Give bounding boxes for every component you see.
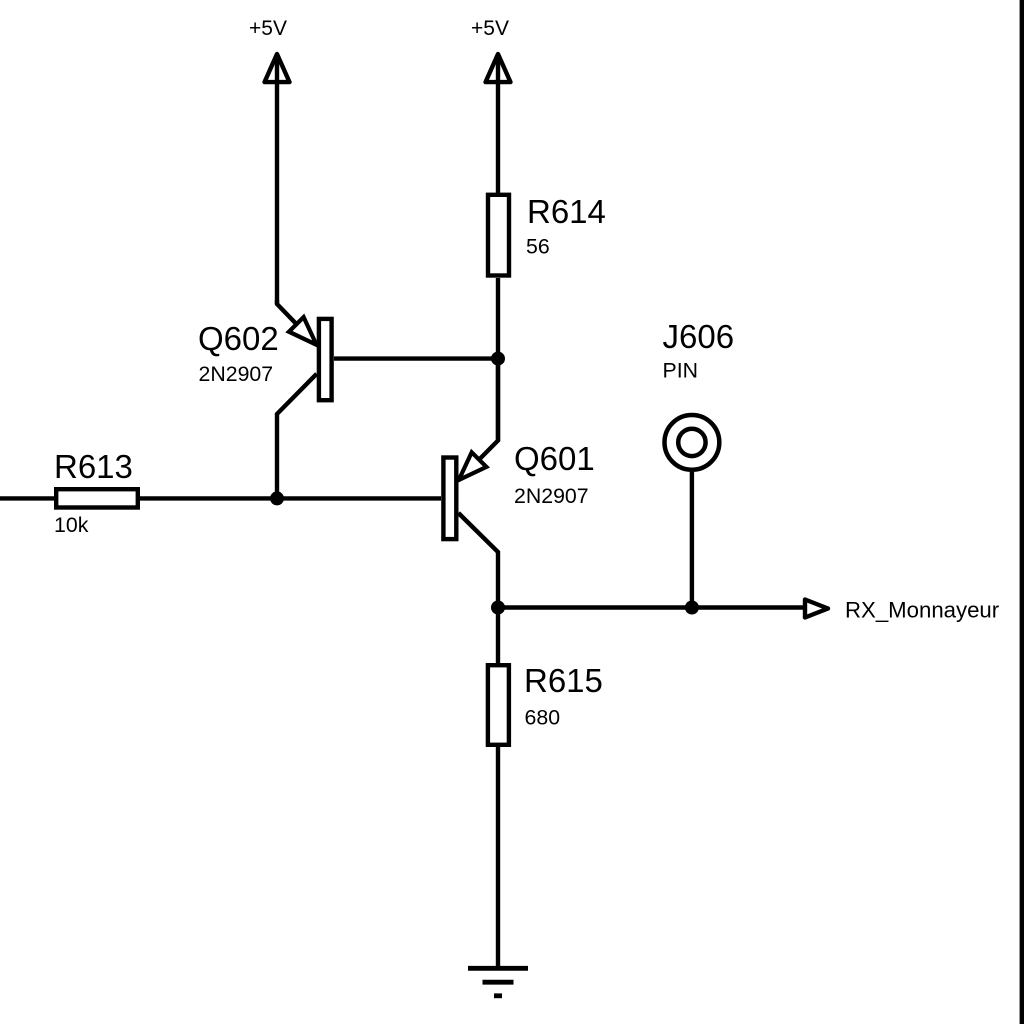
svg-text:Q602: Q602 <box>198 320 279 357</box>
value 56 <box>526 235 550 259</box>
label R615 <box>524 662 603 699</box>
wire node to R615 <box>496 608 500 664</box>
resistor R615 <box>488 665 509 745</box>
transistor Q601 emitter arrowhead <box>459 452 487 480</box>
frame edge right <box>1020 0 1024 1024</box>
svg-text:+5V: +5V <box>249 17 287 40</box>
svg-text:10k: 10k <box>54 513 89 537</box>
label Q601 <box>514 440 595 477</box>
transistor Q602 collector wire <box>277 374 317 499</box>
svg-text:2N2907: 2N2907 <box>514 484 589 508</box>
transistor Q601 emitter wire <box>459 359 498 480</box>
ground <box>468 968 528 996</box>
transistor Q602 emitter arrowhead <box>289 317 317 345</box>
label Q602 <box>198 320 279 357</box>
resistor R614 <box>488 195 509 276</box>
svg-text:2N2907: 2N2907 <box>199 362 274 386</box>
svg-text:R614: R614 <box>527 193 606 230</box>
svg-text:680: 680 <box>525 706 561 730</box>
transistor Q601 collector wire <box>458 513 498 608</box>
net label RX_Monnayeur <box>845 598 1000 623</box>
svg-text:+5V: +5V <box>471 17 509 40</box>
value 2N2907 (Q601) <box>514 484 589 508</box>
node junction Q601 collector / R615 <box>491 601 505 615</box>
power +5V left label <box>249 17 287 40</box>
svg-text:Q601: Q601 <box>514 440 595 477</box>
wire J606 to output net <box>690 472 694 608</box>
transistor Q601 base bar <box>443 458 456 540</box>
connector J606 pin circle <box>665 415 720 470</box>
transistor Q602 emitter wire <box>277 300 317 345</box>
wire R613 to Q601 base <box>140 496 441 500</box>
wire Q602 base to node <box>334 356 498 360</box>
power +5V left arrow symbol <box>265 54 290 304</box>
output arrowhead <box>805 600 828 618</box>
wire output net horizontal <box>498 605 805 609</box>
value 10k <box>54 513 89 537</box>
value 680 <box>525 706 561 730</box>
transistor Q602 base bar <box>319 319 332 400</box>
label R613 <box>54 448 133 485</box>
node junction Q602 base / R614 <box>491 352 505 366</box>
label J606 <box>663 318 735 355</box>
svg-text:R615: R615 <box>524 662 603 699</box>
node junction J606 / output net <box>685 601 699 615</box>
svg-text:R613: R613 <box>54 448 133 485</box>
power +5V right arrow symbol <box>486 54 511 195</box>
wire R614 bottom to Q601 emitter corner (through node) <box>496 278 500 441</box>
power +5V right label <box>471 17 509 40</box>
svg-text:56: 56 <box>526 235 550 259</box>
resistor R613 <box>0 489 138 507</box>
node junction R613 / Q602 collector <box>270 491 284 505</box>
wire R615 to ground <box>496 747 500 968</box>
value 2N2907 (Q602) <box>199 362 274 386</box>
value PIN <box>663 359 699 383</box>
svg-text:J606: J606 <box>663 318 735 355</box>
svg-text:PIN: PIN <box>663 359 699 383</box>
svg-text:RX_Monnayeur: RX_Monnayeur <box>845 598 1000 623</box>
label R614 <box>527 193 606 230</box>
